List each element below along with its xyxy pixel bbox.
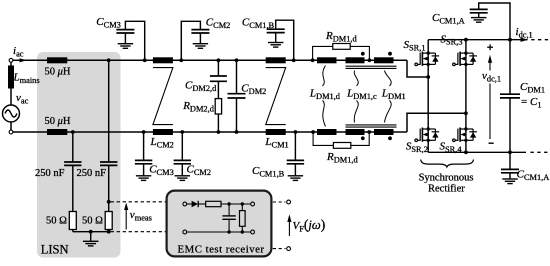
svg-text:CCM1,B: CCM1,B <box>252 165 285 179</box>
wire dc bus top <box>428 39 527 41</box>
wire dashed v_meas top <box>111 201 166 203</box>
svg-text:50 Ω: 50 Ω <box>82 216 103 227</box>
capacitor C_CM3 bottom <box>143 132 145 176</box>
svg-text:250 nF: 250 nF <box>77 168 107 179</box>
node junction dots LISN <box>71 58 111 233</box>
CM choke L_CM1 top winding <box>266 57 286 63</box>
svg-text:CDM1: CDM1 <box>520 81 545 95</box>
terminal VF bottom <box>287 247 291 251</box>
svg-text:50 μH: 50 μH <box>45 67 71 78</box>
EMC test receiver box <box>167 191 272 257</box>
svg-text:iac: iac <box>13 45 24 59</box>
node R_DM1,d bottom left <box>311 130 315 134</box>
dashes dc bottom continuation <box>531 151 549 153</box>
terminal EMC bottom-left <box>183 230 187 234</box>
capacitor C_CM2 top assembly <box>181 21 200 60</box>
svg-text:CCM2: CCM2 <box>206 16 231 30</box>
leader squiggle L_DM1,d up <box>323 66 326 87</box>
node R_DM1,d bottom right <box>367 130 371 134</box>
node leg2 top bus <box>464 38 468 42</box>
node leg1 input <box>426 75 430 79</box>
terminal VF top <box>287 200 291 204</box>
node C_DM2 bottom <box>235 130 239 134</box>
leader squiggle L_DM1 up <box>385 71 392 87</box>
core lines bottom <box>346 125 397 127</box>
wire LISN branch A vertical <box>72 132 74 232</box>
svg-text:idc,1: idc,1 <box>516 26 533 40</box>
wire LISN bottom <box>73 231 109 233</box>
LISN shaded box <box>37 52 121 258</box>
inductor L_DM1,d bottom <box>317 129 337 135</box>
inductor L_DM1,c bottom <box>346 129 365 135</box>
node dc top junction <box>508 38 512 42</box>
node C_CM3 top <box>143 58 147 62</box>
node leg2 input <box>464 111 468 115</box>
arrow v_meas <box>125 210 127 230</box>
capacitor C_DM1 branch <box>509 40 511 153</box>
capacitor C_CM3 top assembly <box>125 21 144 60</box>
brace synchronous rectifier <box>421 160 474 167</box>
svg-text:SSR,3: SSR,3 <box>441 34 463 47</box>
node C_CM1,B top <box>292 58 296 62</box>
wire dc bus bottom <box>428 151 526 153</box>
svg-text:RDM1,d: RDM1,d <box>325 30 358 44</box>
ground C_CM1,B top <box>268 43 283 48</box>
svg-text:VF(jω): VF(jω) <box>293 217 326 234</box>
svg-text:vmeas: vmeas <box>130 209 152 223</box>
inductor L_mains <box>8 66 14 89</box>
capacitor C_CM1,B bottom <box>294 132 296 176</box>
inductor L_DM1,c top <box>346 57 365 63</box>
wire rectifier leg2 <box>465 40 467 153</box>
CM choke L_CM2 bottom winding <box>153 129 173 135</box>
ground C_CM3 top <box>118 44 133 49</box>
arrow i_ac <box>20 58 27 62</box>
svg-text:50 Ω: 50 Ω <box>46 216 67 227</box>
leader squiggle L_DM1 down <box>385 101 392 123</box>
label plus <box>487 44 493 50</box>
svg-text:vac: vac <box>16 92 29 106</box>
svg-text:SSR,1: SSR,1 <box>404 39 426 53</box>
resistor EMC series <box>206 201 221 206</box>
terminal EMC bottom-right <box>251 230 255 234</box>
svg-text:CCM1,A: CCM1,A <box>517 168 550 182</box>
node C_DM2,d bottom <box>217 130 221 134</box>
ground C_CM2 bottom <box>175 176 190 181</box>
ground C_CM1,B bottom <box>288 176 303 181</box>
ground C_CM2 top <box>193 44 208 49</box>
arrow i_dc,1 <box>521 38 529 42</box>
svg-text:Synchronous: Synchronous <box>419 172 474 183</box>
ground C_CM3 bottom <box>136 176 151 181</box>
node dc bottom junction <box>508 150 512 154</box>
CM choke L_CM2 Z coupling line <box>153 68 173 125</box>
wire bottom rail riser to rectifier leg2 <box>407 113 466 132</box>
svg-text:SSR,4: SSR,4 <box>440 141 463 155</box>
dashes dc top continuation <box>531 39 548 41</box>
label minus <box>489 142 494 144</box>
inductor L_DM1,d top <box>317 57 337 63</box>
resistor R_DM1,d bottom bypass <box>313 132 369 145</box>
source v_ac <box>3 105 20 122</box>
node C_DM2 top <box>235 58 239 62</box>
wire left source column <box>10 62 12 105</box>
capacitor 250nF B <box>100 162 117 165</box>
CM choke L_CM2 top winding <box>153 57 173 63</box>
resistor EMC shunt <box>241 204 243 211</box>
node C_CM2 bottom <box>180 130 184 134</box>
leader squiggle L_DM1,c down <box>354 101 358 123</box>
svg-text:Lmains: Lmains <box>13 72 40 86</box>
polarity dot L_DM1,c bottom <box>361 136 365 140</box>
terminal top-left <box>9 58 13 62</box>
core lines top <box>346 66 397 68</box>
wire top rail <box>13 59 408 61</box>
node C_CM1,B bottom <box>294 130 298 134</box>
resistor R_DM1,d top bypass <box>313 46 370 60</box>
resistor 50ohm B <box>105 212 112 230</box>
wire dashed VF bottom <box>273 248 286 250</box>
capacitor C_CM1,A top assembly <box>479 3 510 40</box>
svg-text:EMC test receiver: EMC test receiver <box>178 244 265 256</box>
svg-text:50 μH: 50 μH <box>45 116 71 127</box>
wire LISN branch B vertical <box>108 60 110 231</box>
svg-text:LDM1: LDM1 <box>381 88 406 102</box>
svg-text:= C1: = C1 <box>521 96 542 110</box>
inductor L_DM1 top <box>374 57 394 63</box>
svg-text:RDM1,d: RDM1,d <box>326 151 359 165</box>
ground LISN <box>83 232 99 246</box>
svg-text:LCM2: LCM2 <box>150 136 174 150</box>
polarity dot L_DM1,c top <box>361 52 365 56</box>
svg-text:CCM3: CCM3 <box>149 164 174 178</box>
svg-text:LDM1,d: LDM1,d <box>309 88 341 102</box>
terminal bottom-left <box>9 130 13 134</box>
capacitor C_CM1,A bottom <box>509 152 511 179</box>
svg-text:SSR,2: SSR,2 <box>406 141 428 155</box>
inductor L_DM1 bottom <box>374 129 394 135</box>
svg-text:LCM1: LCM1 <box>264 136 288 150</box>
wire rectifier leg1 <box>427 40 429 153</box>
node C_CM3 bottom <box>142 130 146 134</box>
svg-text:CCM1,B: CCM1,B <box>242 16 275 30</box>
CM choke L_CM1 Z coupling line <box>266 68 286 125</box>
ground C_CM1,A top <box>471 18 486 23</box>
capacitor C_DM2,d branch <box>217 60 219 132</box>
svg-text:LISN: LISN <box>41 243 69 257</box>
svg-text:vdc,1: vdc,1 <box>482 70 501 84</box>
svg-text:250 nF: 250 nF <box>35 168 65 179</box>
svg-text:Rectifier: Rectifier <box>428 183 465 194</box>
diode EMC <box>187 203 192 205</box>
node C_DM2,d top <box>217 58 221 62</box>
polarity dot L_DM1 bottom <box>388 136 392 140</box>
wire bottom rail <box>13 131 408 133</box>
terminal EMC top-left <box>183 202 187 206</box>
leader squiggle L_DM1,d down <box>323 101 326 127</box>
capacitor C_CM2 bottom <box>181 132 183 176</box>
node EMC junctions <box>227 202 244 233</box>
wire top rail riser to rectifier leg1 <box>407 60 428 77</box>
transistor S_SR,2 <box>415 128 439 142</box>
inductor 50uH bottom <box>47 129 67 135</box>
wire dashed v_meas bottom <box>111 231 166 233</box>
transistor S_SR,4 <box>453 128 477 142</box>
svg-text:CCM1,A: CCM1,A <box>432 12 465 26</box>
capacitor C_DM2 branch <box>236 60 238 132</box>
svg-text:CCM3: CCM3 <box>96 16 121 30</box>
node R_DM1,d top left <box>311 58 315 62</box>
svg-text:LDM1,c: LDM1,c <box>346 88 377 102</box>
svg-text:RDM2,d: RDM2,d <box>182 100 215 114</box>
CM choke L_CM1 bottom winding <box>266 129 286 135</box>
node R_DM1,d top right <box>368 58 372 62</box>
wire dashed VF top <box>273 201 286 203</box>
svg-text:CCM2: CCM2 <box>187 164 212 178</box>
capacitor EMC shunt <box>228 204 230 232</box>
capacitor C_CM1,B top assembly <box>276 20 294 60</box>
node C_CM2 top <box>179 58 183 62</box>
leader squiggle L_DM1,c up <box>354 71 358 87</box>
transistor S_SR,1 <box>415 52 439 66</box>
wire EMC top <box>221 203 251 205</box>
resistor 50ohm A <box>69 212 76 230</box>
resistor R_DM2,d <box>215 99 221 114</box>
svg-text:CDM2: CDM2 <box>241 83 266 97</box>
terminal EMC top-right <box>251 202 255 206</box>
polarity dot L_DM1 top <box>388 52 392 56</box>
capacitor 250nF A <box>64 162 81 165</box>
inductor 50uH top <box>47 57 67 63</box>
transistor S_SR,3 <box>453 52 477 66</box>
arrow v_dc,1 <box>489 63 491 140</box>
wire EMC bottom <box>187 231 251 233</box>
node leg2 bottom bus <box>464 150 468 154</box>
ground C_CM1,A bottom <box>502 179 517 184</box>
arrow V_F <box>288 222 290 237</box>
